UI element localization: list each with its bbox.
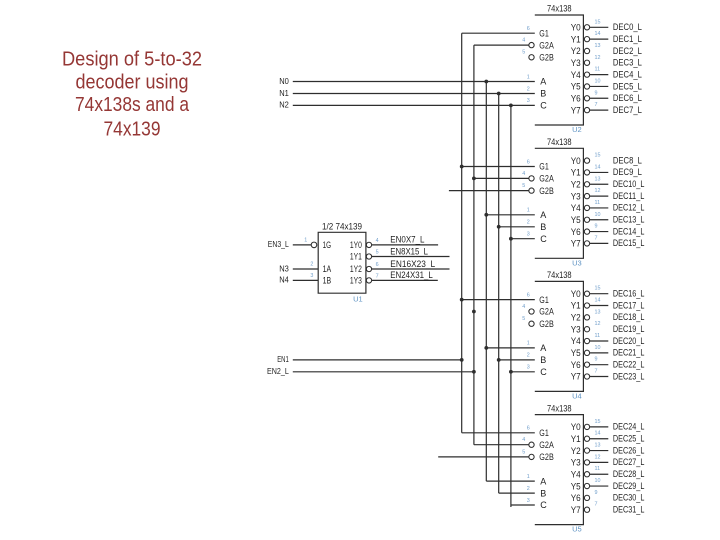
svg-text:DEC0_L: DEC0_L <box>613 22 642 33</box>
svg-text:3: 3 <box>527 232 530 238</box>
svg-text:G2A: G2A <box>539 440 554 450</box>
decoder U1 1/2 74x139 body <box>318 232 366 293</box>
svg-text:1Y1: 1Y1 <box>350 252 362 262</box>
svg-text:A: A <box>540 77 546 87</box>
U4 A wire <box>486 347 535 349</box>
svg-text:2: 2 <box>527 353 530 359</box>
wire EN16X23_L <box>372 268 450 270</box>
U4 Y3 inversion bubble <box>584 327 589 332</box>
svg-text:13: 13 <box>595 309 601 315</box>
svg-text:13: 13 <box>595 43 601 49</box>
svg-text:DEC4_L: DEC4_L <box>613 69 642 80</box>
svg-text:Y6: Y6 <box>571 227 581 237</box>
wire N2 <box>293 104 535 106</box>
svg-text:DEC23_L: DEC23_L <box>613 371 645 382</box>
wire EN24X31_L <box>372 279 438 281</box>
svg-text:11: 11 <box>595 333 601 339</box>
svg-text:7: 7 <box>595 235 598 241</box>
svg-text:Y0: Y0 <box>571 156 581 166</box>
svg-text:1Y0: 1Y0 <box>350 240 362 250</box>
svg-text:DEC13_L: DEC13_L <box>613 215 645 226</box>
svg-text:74x139: 74x139 <box>104 118 161 141</box>
wire DEC17_L <box>590 305 609 307</box>
svg-text:11: 11 <box>595 466 601 472</box>
svg-text:DEC19_L: DEC19_L <box>613 324 645 335</box>
junction EN2/U3 G2A <box>472 177 476 181</box>
junction N2/U4 C <box>509 370 513 374</box>
U2 G1 wire <box>462 32 535 34</box>
svg-text:Y4: Y4 <box>571 336 581 346</box>
wire DEC24_L <box>590 426 609 428</box>
svg-text:DEC28_L: DEC28_L <box>613 469 645 480</box>
svg-text:1/2 74x139: 1/2 74x139 <box>322 221 362 231</box>
U5 A wire <box>486 480 535 482</box>
junction N2/U2 C <box>509 104 513 108</box>
svg-text:10: 10 <box>595 78 601 84</box>
U5 B wire <box>499 492 535 494</box>
U3 C wire <box>511 238 535 240</box>
svg-text:74x138: 74x138 <box>547 137 572 148</box>
U4 B wire <box>499 359 535 361</box>
wire DEC0_L <box>590 26 609 28</box>
svg-text:1: 1 <box>527 74 530 80</box>
svg-text:Y4: Y4 <box>571 203 581 213</box>
svg-text:DEC20_L: DEC20_L <box>613 336 645 347</box>
svg-text:9: 9 <box>595 224 598 230</box>
wire EN0X7_L <box>372 244 438 246</box>
U2 Y3 inversion bubble <box>584 60 589 65</box>
wire DEC15_L <box>590 242 609 244</box>
U5 G1 wire <box>462 432 535 434</box>
wire DEC20_L <box>590 340 609 342</box>
svg-text:1A: 1A <box>323 264 332 274</box>
svg-text:3: 3 <box>527 498 530 504</box>
svg-text:6: 6 <box>527 26 530 32</box>
svg-text:1Y2: 1Y2 <box>350 264 362 274</box>
svg-text:EN8X15_L: EN8X15_L <box>390 246 428 257</box>
svg-text:DEC24_L: DEC24_L <box>613 422 645 433</box>
svg-text:Y4: Y4 <box>571 469 581 479</box>
U5 G2A wire <box>474 444 529 446</box>
wire DEC25_L <box>590 438 609 440</box>
svg-text:A: A <box>540 476 546 486</box>
svg-text:1: 1 <box>527 341 530 347</box>
svg-text:10: 10 <box>595 212 601 218</box>
svg-text:C: C <box>540 101 547 111</box>
svg-text:DEC12_L: DEC12_L <box>613 203 645 214</box>
U2 Y1 inversion bubble <box>584 36 589 41</box>
U3 G2A wire <box>474 177 529 179</box>
U2 G2A wire <box>474 44 529 46</box>
svg-text:6: 6 <box>527 292 530 298</box>
svg-text:Y7: Y7 <box>571 505 581 515</box>
svg-text:Y2: Y2 <box>571 446 581 456</box>
U2 Y4 inversion bubble <box>584 72 589 77</box>
svg-text:15: 15 <box>595 19 601 25</box>
svg-text:decoder using: decoder using <box>76 70 189 93</box>
svg-text:Y5: Y5 <box>571 215 581 225</box>
U2 Y7 inversion bubble <box>584 107 589 112</box>
U3 Y5 inversion bubble <box>584 217 589 222</box>
wire DEC16_L <box>590 293 609 295</box>
wire DEC11_L <box>590 195 609 197</box>
svg-text:9: 9 <box>595 90 598 96</box>
U2 Y5 inversion bubble <box>584 84 589 89</box>
wire DEC4_L <box>590 74 609 76</box>
junction N0/U3 A <box>484 213 488 217</box>
U4 G1 wire <box>462 299 535 301</box>
svg-text:3: 3 <box>527 365 530 371</box>
svg-text:EN3_L: EN3_L <box>268 239 289 249</box>
svg-text:DEC22_L: DEC22_L <box>613 359 645 370</box>
junction N0/U4 A <box>484 346 488 350</box>
wire DEC13_L <box>590 219 609 221</box>
svg-text:7: 7 <box>376 274 379 280</box>
svg-text:A: A <box>540 343 546 353</box>
svg-text:Y1: Y1 <box>571 434 581 444</box>
svg-text:U2: U2 <box>572 125 582 134</box>
wire DEC28_L <box>590 473 609 475</box>
svg-text:Y6: Y6 <box>571 493 581 503</box>
U2 Y2 inversion bubble <box>584 48 589 53</box>
svg-text:15: 15 <box>595 286 601 292</box>
svg-text:1Y3: 1Y3 <box>350 276 362 286</box>
svg-text:Y0: Y0 <box>571 23 581 33</box>
svg-text:C: C <box>540 367 547 377</box>
svg-text:14: 14 <box>595 31 601 37</box>
wire N1 <box>293 93 535 95</box>
svg-text:4: 4 <box>522 304 525 310</box>
U3 G2A inversion bubble <box>529 176 534 181</box>
svg-text:15: 15 <box>595 419 601 425</box>
svg-text:14: 14 <box>595 164 601 170</box>
svg-text:Y6: Y6 <box>571 93 581 103</box>
svg-text:DEC7_L: DEC7_L <box>613 105 642 116</box>
U2 Y0 inversion bubble <box>584 25 589 30</box>
svg-text:Y3: Y3 <box>571 191 581 201</box>
svg-text:DEC6_L: DEC6_L <box>613 93 642 104</box>
U5 Y4 inversion bubble <box>584 472 589 477</box>
svg-text:DEC8_L: DEC8_L <box>613 155 642 166</box>
svg-text:5: 5 <box>522 316 525 322</box>
svg-text:13: 13 <box>595 443 601 449</box>
U3 G1 wire <box>462 166 535 168</box>
junction N1/U3 B <box>497 225 501 229</box>
U5 Y1 inversion bubble <box>584 436 589 441</box>
junction N1/U4 B <box>497 358 501 362</box>
wire N3 <box>293 268 318 270</box>
svg-text:7: 7 <box>595 369 598 375</box>
svg-text:Y2: Y2 <box>571 46 581 56</box>
svg-text:DEC30_L: DEC30_L <box>613 493 645 504</box>
svg-text:G2B: G2B <box>539 53 554 63</box>
U5 C wire <box>511 504 535 506</box>
svg-text:9: 9 <box>595 357 598 363</box>
svg-text:DEC11_L: DEC11_L <box>613 191 645 202</box>
svg-text:12: 12 <box>595 454 601 460</box>
svg-text:G2B: G2B <box>539 452 554 462</box>
svg-text:U4: U4 <box>572 391 582 400</box>
U5 G2B inversion bubble <box>529 454 534 459</box>
svg-text:4: 4 <box>522 38 525 44</box>
svg-text:G2B: G2B <box>539 186 554 196</box>
svg-text:12: 12 <box>595 188 601 194</box>
svg-text:U3: U3 <box>572 258 582 267</box>
wire DEC14_L <box>590 231 609 233</box>
svg-text:EN1: EN1 <box>277 354 289 364</box>
U5 Y6 inversion bubble <box>584 495 589 500</box>
svg-text:Y5: Y5 <box>571 348 581 358</box>
svg-text:EN2_L: EN2_L <box>267 366 289 376</box>
junction EN2 feed <box>472 370 476 374</box>
svg-text:3: 3 <box>310 273 313 279</box>
svg-text:2: 2 <box>527 86 530 92</box>
U3 Y3 inversion bubble <box>584 193 589 198</box>
wire DEC23_L <box>590 376 609 378</box>
svg-text:B: B <box>540 89 546 99</box>
svg-text:Y3: Y3 <box>571 458 581 468</box>
wire DEC22_L <box>590 364 609 366</box>
bus wire N0 vertical <box>485 82 487 482</box>
svg-text:U1: U1 <box>353 295 363 304</box>
svg-text:13: 13 <box>595 176 601 182</box>
svg-text:74x138: 74x138 <box>547 403 572 414</box>
svg-text:12: 12 <box>595 55 601 61</box>
U1 1Y1 inversion bubble <box>366 254 371 259</box>
wire DEC29_L <box>590 485 609 487</box>
junction EN1/U4 G1 <box>460 298 464 302</box>
svg-text:G2B: G2B <box>539 319 554 329</box>
wire EN3_L <box>293 244 311 246</box>
svg-text:Y6: Y6 <box>571 360 581 370</box>
U3 Y7 inversion bubble <box>584 241 589 246</box>
wire DEC26_L <box>590 450 609 452</box>
wire DEC21_L <box>590 352 609 354</box>
U3 A wire <box>486 214 535 216</box>
svg-text:B: B <box>540 488 546 498</box>
svg-text:11: 11 <box>595 67 601 73</box>
bus wire N2 vertical <box>510 105 512 507</box>
svg-text:DEC16_L: DEC16_L <box>613 289 645 300</box>
U3 Y0 inversion bubble <box>584 158 589 163</box>
U4 G2B inversion bubble <box>529 321 534 326</box>
junction N2/U3 C <box>509 237 513 241</box>
svg-text:N0: N0 <box>279 76 289 86</box>
wire DEC6_L <box>590 97 609 99</box>
svg-text:7: 7 <box>595 502 598 508</box>
junction N1/U2 B <box>497 92 501 96</box>
svg-text:6: 6 <box>376 262 379 268</box>
U1 1Y3 inversion bubble <box>366 278 371 283</box>
U3 Y4 inversion bubble <box>584 205 589 210</box>
svg-text:1G: 1G <box>323 240 332 250</box>
svg-text:G2A: G2A <box>539 307 554 317</box>
U5 G2A inversion bubble <box>529 442 534 447</box>
svg-text:6: 6 <box>527 159 530 165</box>
U2 Y6 inversion bubble <box>584 96 589 101</box>
U2 G2B inversion bubble <box>529 55 534 60</box>
U3 Y1 inversion bubble <box>584 170 589 175</box>
U4 G2A inversion bubble <box>529 309 534 314</box>
U5 Y2 inversion bubble <box>584 448 589 453</box>
svg-text:Y1: Y1 <box>571 168 581 178</box>
svg-text:DEC15_L: DEC15_L <box>613 238 645 249</box>
U1 1Y0 inversion bubble <box>366 242 371 247</box>
svg-text:10: 10 <box>595 478 601 484</box>
U3 B wire <box>499 226 535 228</box>
svg-text:74x138: 74x138 <box>547 4 572 15</box>
U3 G2B wire <box>449 190 529 192</box>
wire DEC5_L <box>590 85 609 87</box>
svg-text:EN0X7_L: EN0X7_L <box>390 235 424 246</box>
wire N0 <box>293 81 535 83</box>
svg-text:Design of 5-to-32: Design of 5-to-32 <box>62 48 202 71</box>
svg-text:4: 4 <box>522 437 525 443</box>
wire EN1 <box>293 359 462 361</box>
U4 Y4 inversion bubble <box>584 338 589 343</box>
U5 Y0 inversion bubble <box>584 424 589 429</box>
wire N4 <box>293 279 318 281</box>
svg-text:2: 2 <box>527 486 530 492</box>
svg-text:G1: G1 <box>539 28 549 38</box>
svg-text:DEC25_L: DEC25_L <box>613 434 645 445</box>
junction N0/U2 A <box>484 80 488 84</box>
svg-text:DEC9_L: DEC9_L <box>613 167 642 178</box>
wire DEC27_L <box>590 461 609 463</box>
decoder U3 74x138 body <box>535 148 584 258</box>
svg-text:DEC18_L: DEC18_L <box>613 312 645 323</box>
svg-text:Y7: Y7 <box>571 105 581 115</box>
svg-text:2: 2 <box>527 220 530 226</box>
U4 Y7 inversion bubble <box>584 374 589 379</box>
svg-text:11: 11 <box>595 200 601 206</box>
svg-text:3: 3 <box>527 98 530 104</box>
svg-text:DEC29_L: DEC29_L <box>613 481 645 492</box>
bus wire EN1 vertical <box>461 33 463 433</box>
svg-text:B: B <box>540 355 546 365</box>
U4 Y0 inversion bubble <box>584 291 589 296</box>
U3 Y6 inversion bubble <box>584 229 589 234</box>
U5 Y3 inversion bubble <box>584 460 589 465</box>
svg-text:Y1: Y1 <box>571 34 581 44</box>
svg-text:1B: 1B <box>323 276 332 286</box>
svg-text:DEC26_L: DEC26_L <box>613 445 645 456</box>
svg-text:1: 1 <box>304 238 307 244</box>
svg-text:A: A <box>540 210 546 220</box>
U1 1G inversion bubble <box>311 242 317 248</box>
svg-text:N4: N4 <box>279 275 289 285</box>
svg-text:4: 4 <box>376 238 379 244</box>
U3 G2B inversion bubble <box>529 188 534 193</box>
svg-text:Y5: Y5 <box>571 481 581 491</box>
U1 1Y2 inversion bubble <box>366 266 371 271</box>
svg-text:DEC27_L: DEC27_L <box>613 457 645 468</box>
svg-text:Y7: Y7 <box>571 372 581 382</box>
svg-text:Y7: Y7 <box>571 239 581 249</box>
svg-text:G2A: G2A <box>539 174 554 184</box>
svg-text:Y0: Y0 <box>571 422 581 432</box>
svg-text:15: 15 <box>595 153 601 159</box>
svg-text:Y3: Y3 <box>571 324 581 334</box>
svg-text:DEC31_L: DEC31_L <box>613 505 645 516</box>
svg-text:1: 1 <box>527 208 530 214</box>
svg-text:DEC2_L: DEC2_L <box>613 46 642 57</box>
wire DEC1_L <box>590 38 609 40</box>
wire DEC9_L <box>590 171 609 173</box>
decoder U2 74x138 body <box>535 15 584 125</box>
svg-text:Y3: Y3 <box>571 58 581 68</box>
svg-text:EN24X31_L: EN24X31_L <box>390 270 433 281</box>
junction EN1/U3 G1 <box>460 165 464 169</box>
svg-text:4: 4 <box>522 171 525 177</box>
svg-text:9: 9 <box>595 490 598 496</box>
svg-text:C: C <box>540 500 547 510</box>
svg-text:C: C <box>540 234 547 244</box>
svg-text:6: 6 <box>527 426 530 432</box>
svg-text:N1: N1 <box>279 88 289 98</box>
svg-text:14: 14 <box>595 298 601 304</box>
U4 C wire <box>511 371 535 373</box>
svg-text:1: 1 <box>527 474 530 480</box>
svg-text:2: 2 <box>310 262 313 268</box>
svg-text:G1: G1 <box>539 162 549 172</box>
svg-text:Y4: Y4 <box>571 70 581 80</box>
svg-text:Y2: Y2 <box>571 313 581 323</box>
svg-text:EN16X23_L: EN16X23_L <box>390 259 435 270</box>
svg-text:DEC5_L: DEC5_L <box>613 81 642 92</box>
svg-text:G1: G1 <box>539 428 549 438</box>
svg-text:Y2: Y2 <box>571 179 581 189</box>
decoder U5 74x138 body <box>535 415 584 525</box>
svg-text:DEC10_L: DEC10_L <box>613 179 645 190</box>
svg-text:74x138s and a: 74x138s and a <box>75 93 189 116</box>
svg-text:N2: N2 <box>279 100 289 110</box>
svg-text:5: 5 <box>376 250 379 256</box>
svg-text:G2A: G2A <box>539 40 554 50</box>
U5 Y7 inversion bubble <box>584 507 589 512</box>
U4 Y5 inversion bubble <box>584 350 589 355</box>
svg-text:Y0: Y0 <box>571 289 581 299</box>
svg-text:N3: N3 <box>279 263 289 273</box>
svg-text:5: 5 <box>522 449 525 455</box>
wire DEC12_L <box>590 207 609 209</box>
svg-text:DEC14_L: DEC14_L <box>613 226 645 237</box>
decoder U4 74x138 body <box>535 281 584 391</box>
U3 Y2 inversion bubble <box>584 182 589 187</box>
U4 Y1 inversion bubble <box>584 303 589 308</box>
svg-text:DEC3_L: DEC3_L <box>613 58 642 69</box>
junction EN2 bus <box>472 310 476 314</box>
bus wire N1 vertical <box>498 94 500 494</box>
svg-text:7: 7 <box>595 102 598 108</box>
svg-text:DEC1_L: DEC1_L <box>613 34 642 45</box>
U5 G2B wire <box>438 456 529 458</box>
svg-text:5: 5 <box>522 183 525 189</box>
bus wire EN2 vertical <box>473 45 475 445</box>
svg-text:10: 10 <box>595 345 601 351</box>
svg-text:74x138: 74x138 <box>547 270 572 281</box>
svg-text:Y1: Y1 <box>571 301 581 311</box>
U5 Y5 inversion bubble <box>584 483 589 488</box>
junction EN1 feed <box>460 358 464 362</box>
svg-text:12: 12 <box>595 321 601 327</box>
svg-text:G1: G1 <box>539 295 549 305</box>
wire DEC7_L <box>590 109 609 111</box>
svg-text:U5: U5 <box>572 525 582 534</box>
U4 Y6 inversion bubble <box>584 362 589 367</box>
svg-text:DEC17_L: DEC17_L <box>613 300 645 311</box>
U2 G2A inversion bubble <box>529 42 534 47</box>
